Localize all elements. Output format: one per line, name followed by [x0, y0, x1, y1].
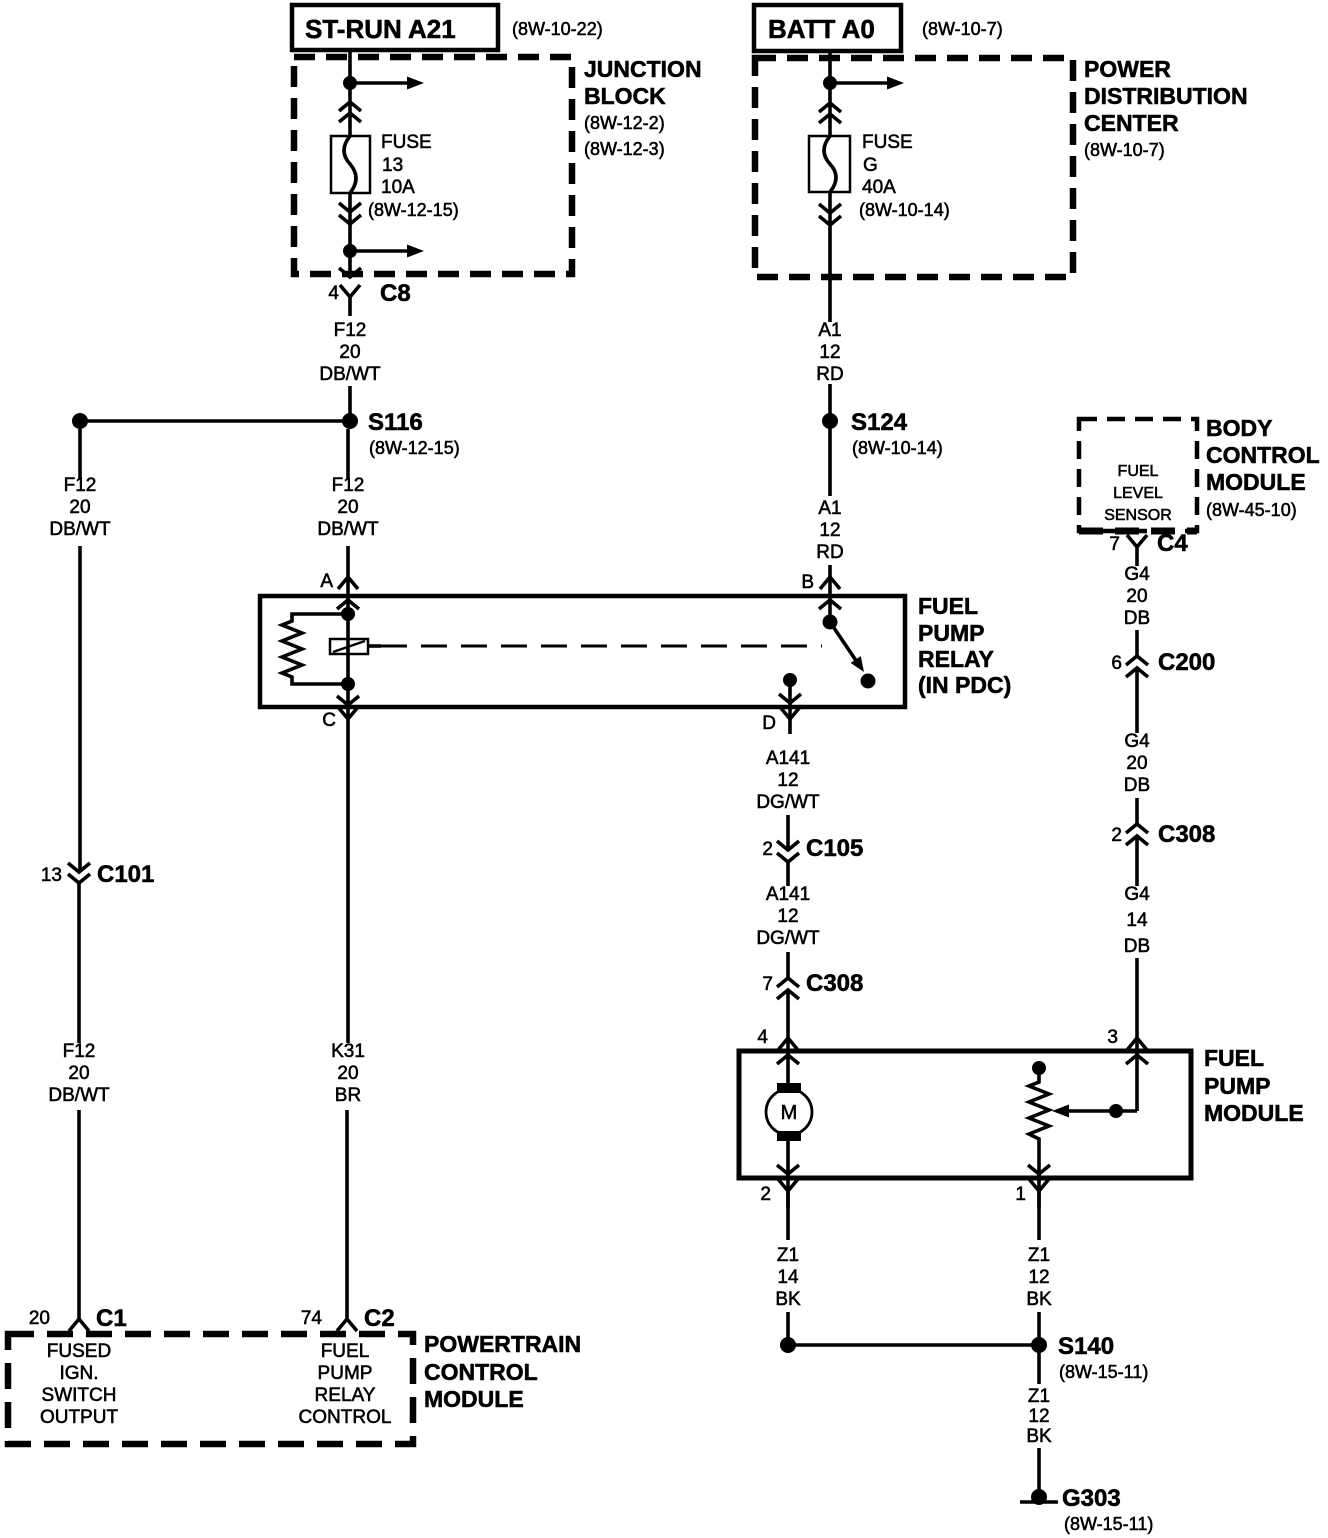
svg-text:Z1: Z1: [1028, 1386, 1050, 1407]
node ST-RUN A21 feed box: [292, 5, 498, 50]
wire down to PCM connector C2: [345, 1110, 349, 1319]
current direction chevrons up: [819, 103, 841, 112]
connector C101 chevrons: [68, 863, 90, 872]
svg-text:BODY: BODY: [1206, 415, 1272, 441]
svg-text:BR: BR: [335, 1085, 361, 1106]
wire to connector C200: [1135, 630, 1139, 656]
relay pin D node: [783, 673, 797, 687]
wire motor to pin 2: [786, 1140, 790, 1208]
svg-text:F12: F12: [334, 320, 367, 341]
powertrain control module dashed enclosure: [8, 1334, 413, 1444]
power distribution center dashed enclosure: [755, 58, 1073, 277]
fuse G 40A power distribution center: [809, 136, 850, 192]
svg-text:1: 1: [1015, 1184, 1026, 1205]
wire below C101: [77, 883, 81, 1043]
svg-text:20: 20: [1126, 586, 1147, 607]
svg-text:14: 14: [777, 1267, 799, 1288]
svg-text:K31: K31: [331, 1041, 365, 1062]
svg-text:7: 7: [1109, 534, 1120, 555]
svg-text:RD: RD: [816, 542, 843, 563]
svg-text:G4: G4: [1124, 731, 1150, 752]
fuel level sender resistor: [1032, 1061, 1046, 1075]
svg-text:C101: C101: [97, 861, 154, 888]
svg-text:2: 2: [1111, 825, 1122, 846]
wire relay pin D: [788, 680, 792, 734]
svg-text:20: 20: [339, 342, 360, 363]
svg-text:C8: C8: [380, 280, 411, 307]
fuel pump motor M1: [777, 1083, 801, 1093]
relay pin D chevron: [779, 694, 801, 703]
svg-text:C2: C2: [364, 1305, 395, 1332]
wire from S116 down: [346, 429, 350, 479]
svg-text:C308: C308: [1158, 821, 1215, 848]
svg-text:OUTPUT: OUTPUT: [40, 1407, 119, 1428]
svg-text:2: 2: [760, 1184, 771, 1205]
svg-text:4: 4: [757, 1027, 768, 1048]
body control module dashed enclosure: [1079, 419, 1197, 531]
svg-text:POWER: POWER: [1084, 56, 1171, 82]
relay coil bottom node: [341, 677, 355, 691]
svg-text:F12: F12: [64, 475, 97, 496]
svg-text:(8W-10-14): (8W-10-14): [852, 438, 943, 458]
sender wiper arm: [1066, 1109, 1137, 1113]
connector C1 fork: [69, 1319, 89, 1331]
wire ST-RUN A21 into junction block: [348, 50, 352, 136]
svg-text:40A: 40A: [862, 177, 896, 198]
wire pin 1 to splice S140: [1037, 1191, 1041, 1240]
svg-text:RELAY: RELAY: [918, 646, 994, 672]
svg-text:13: 13: [41, 865, 62, 886]
wire to splice S124: [828, 384, 832, 496]
wire to connector C105: [786, 815, 790, 850]
svg-text:JUNCTION: JUNCTION: [584, 56, 702, 82]
wire to fuel pump module pin 4: [786, 990, 790, 1084]
svg-text:2: 2: [762, 839, 773, 860]
svg-text:20: 20: [69, 497, 90, 518]
relay pin B fork: [820, 577, 840, 589]
splice S140 left node: [780, 1337, 796, 1353]
svg-text:RD: RD: [816, 364, 843, 385]
svg-text:(8W-10-14): (8W-10-14): [859, 200, 950, 220]
svg-text:BK: BK: [775, 1289, 801, 1310]
wire fuse output: [348, 193, 352, 278]
svg-text:MODULE: MODULE: [424, 1386, 524, 1412]
connector C8 fork: [340, 285, 360, 297]
wire to connector C308: [786, 952, 790, 978]
svg-text:A: A: [320, 571, 333, 592]
svg-text:(8W-10-7): (8W-10-7): [1084, 140, 1165, 160]
fuel pump module pin 4 chevron: [777, 1055, 799, 1064]
wire to fuel pump relay pin B: [828, 565, 832, 622]
relay pin C chevron: [337, 696, 359, 705]
splice S116 bar: [80, 419, 350, 423]
svg-text:MODULE: MODULE: [1206, 469, 1306, 495]
svg-text:3: 3: [1107, 1027, 1118, 1048]
junction node with branch arrow: [823, 76, 837, 90]
connector C2 fork: [337, 1319, 357, 1331]
current direction chevrons up: [339, 102, 361, 111]
svg-text:C200: C200: [1158, 649, 1215, 676]
relay pin D fork: [780, 707, 800, 719]
svg-text:FUSE: FUSE: [381, 132, 432, 153]
svg-text:A1: A1: [818, 498, 841, 519]
fuel pump module pin 2 fork: [778, 1179, 798, 1191]
wire to fuel pump relay pin A: [346, 546, 350, 616]
svg-text:RELAY: RELAY: [315, 1385, 376, 1406]
svg-text:6: 6: [1111, 653, 1122, 674]
svg-text:4: 4: [328, 283, 339, 304]
svg-text:CONTROL: CONTROL: [424, 1359, 538, 1385]
junction node with branch arrow: [343, 244, 357, 258]
splice S116 left node: [72, 413, 88, 429]
svg-text:FUSE: FUSE: [862, 132, 913, 153]
svg-text:PUMP: PUMP: [1204, 1073, 1270, 1099]
wire fuse G output: [828, 192, 832, 322]
svg-text:G303: G303: [1062, 1485, 1121, 1512]
relay pin C fork: [338, 707, 358, 719]
svg-text:FUEL: FUEL: [321, 1341, 370, 1362]
svg-text:20: 20: [1126, 753, 1147, 774]
connector C105 chevrons: [777, 841, 799, 850]
relay coil top node: [341, 607, 355, 621]
ground G303: [1031, 1489, 1047, 1505]
svg-text:ST-RUN A21: ST-RUN A21: [305, 14, 456, 44]
svg-text:S124: S124: [851, 409, 908, 436]
current direction chevrons down: [819, 204, 841, 213]
fuel pump module pin 1 chevron: [1028, 1165, 1050, 1174]
wire BATT A0 into PDC: [828, 51, 832, 136]
svg-text:G: G: [863, 155, 878, 176]
svg-text:C4: C4: [1157, 530, 1188, 557]
relay switch contact node: [861, 674, 876, 689]
svg-text:CONTROL: CONTROL: [299, 1407, 392, 1428]
svg-text:(8W-15-11): (8W-15-11): [1059, 1362, 1148, 1382]
current direction chevrons down: [339, 203, 361, 212]
svg-text:10A: 10A: [381, 177, 415, 198]
svg-text:B: B: [801, 572, 814, 593]
svg-text:BATT A0: BATT A0: [768, 14, 875, 44]
fuel pump module pin 4 fork: [778, 1038, 798, 1050]
svg-text:CONTROL: CONTROL: [1206, 442, 1320, 468]
svg-text:DB/WT: DB/WT: [49, 519, 111, 540]
svg-text:DG/WT: DG/WT: [756, 792, 820, 813]
svg-text:DB: DB: [1124, 936, 1150, 957]
svg-text:M: M: [781, 1102, 798, 1124]
svg-text:POWERTRAIN: POWERTRAIN: [424, 1331, 581, 1357]
svg-text:DG/WT: DG/WT: [756, 928, 820, 949]
splice S124 node: [822, 413, 838, 429]
fuel pump relay box: [260, 596, 905, 707]
svg-text:BK: BK: [1026, 1426, 1052, 1447]
svg-text:FUEL: FUEL: [1118, 463, 1159, 480]
wire below C105: [786, 862, 790, 886]
svg-text:12: 12: [777, 906, 798, 927]
fuel pump module pin 1 fork: [1029, 1179, 1049, 1191]
wire pin 2 to splice S140: [786, 1191, 790, 1240]
svg-text:(8W-12-15): (8W-12-15): [369, 438, 460, 458]
svg-text:BK: BK: [1026, 1289, 1052, 1310]
svg-text:(8W-12-2): (8W-12-2): [584, 113, 665, 133]
svg-text:S116: S116: [368, 409, 423, 436]
wire to connector C308: [1135, 798, 1139, 824]
svg-text:12: 12: [819, 520, 840, 541]
svg-text:SWITCH: SWITCH: [42, 1385, 117, 1406]
relay switch blade: [830, 622, 857, 662]
svg-text:20: 20: [29, 1308, 50, 1329]
svg-text:(8W-45-10): (8W-45-10): [1206, 500, 1297, 520]
wire below C308: [1135, 836, 1139, 886]
svg-text:(8W-15-11): (8W-15-11): [1064, 1514, 1153, 1534]
svg-text:12: 12: [1028, 1406, 1049, 1427]
wire from S116 left branch down: [78, 429, 82, 479]
svg-text:74: 74: [301, 1308, 323, 1329]
svg-text:20: 20: [68, 1063, 89, 1084]
relay suppression resistor: [282, 614, 348, 684]
svg-text:C: C: [322, 710, 336, 731]
svg-text:(8W-10-22): (8W-10-22): [512, 19, 603, 39]
connector C308 chevrons: [777, 978, 799, 987]
splice S140 bar: [788, 1343, 1039, 1347]
svg-text:C1: C1: [96, 1305, 127, 1332]
connector C4 fork: [1127, 535, 1147, 547]
svg-text:DB/WT: DB/WT: [319, 364, 381, 385]
svg-text:SENSOR: SENSOR: [1104, 507, 1172, 524]
svg-text:IGN.: IGN.: [59, 1363, 98, 1384]
svg-text:S140: S140: [1058, 1333, 1114, 1360]
svg-text:12: 12: [819, 342, 840, 363]
relay pin B chevron: [819, 600, 841, 609]
connector C200 chevrons: [1126, 656, 1148, 665]
junction node with branch arrow: [343, 76, 357, 90]
svg-text:G4: G4: [1124, 564, 1150, 585]
svg-text:Z1: Z1: [777, 1245, 799, 1266]
svg-text:20: 20: [337, 497, 358, 518]
fuel pump module pin 3 chevron: [1126, 1055, 1148, 1064]
connector C308 chevrons: [1126, 824, 1148, 833]
svg-text:12: 12: [777, 770, 798, 791]
wire sender to pin 1: [1037, 1143, 1041, 1208]
svg-text:(8W-10-7): (8W-10-7): [922, 19, 1003, 39]
svg-text:DB: DB: [1124, 775, 1150, 796]
svg-text:FUEL: FUEL: [918, 593, 978, 619]
junction block dashed enclosure: [294, 57, 572, 274]
svg-text:A141: A141: [766, 884, 810, 905]
relay pin A fork: [338, 577, 358, 589]
svg-text:DB/WT: DB/WT: [48, 1085, 110, 1106]
wire to ground G303: [1037, 1448, 1041, 1492]
wire down to PCM connector C1: [77, 1110, 81, 1319]
svg-text:D: D: [762, 713, 776, 734]
wire to splice S116: [348, 386, 352, 416]
svg-text:FUEL: FUEL: [1204, 1045, 1264, 1071]
svg-text:DB/WT: DB/WT: [317, 519, 379, 540]
wire below S140: [1037, 1353, 1041, 1384]
svg-text:(IN PDC): (IN PDC): [918, 672, 1011, 698]
connector C8 pin 4 chevron: [339, 268, 361, 277]
fuel pump module pin 3 fork: [1127, 1038, 1147, 1050]
svg-text:PUMP: PUMP: [918, 620, 984, 646]
relay control dashed link: [381, 645, 822, 648]
wire K31 to PCM: [346, 734, 350, 1043]
wire through relay pin C: [346, 684, 350, 734]
svg-text:A141: A141: [766, 748, 810, 769]
svg-text:F12: F12: [332, 475, 365, 496]
svg-text:14: 14: [1126, 910, 1148, 931]
svg-text:BLOCK: BLOCK: [584, 83, 666, 109]
fuel pump module box: [739, 1051, 1191, 1178]
wire relay coil vertical: [346, 614, 350, 684]
svg-text:7: 7: [762, 974, 773, 995]
svg-text:A1: A1: [818, 320, 841, 341]
splice S140 right node: [1031, 1337, 1047, 1353]
relay coil: [330, 639, 368, 654]
wire down to connector C101: [78, 546, 82, 872]
svg-text:F12: F12: [63, 1041, 96, 1062]
svg-text:MODULE: MODULE: [1204, 1100, 1304, 1126]
svg-text:LEVEL: LEVEL: [1113, 485, 1163, 502]
relay pin A chevron: [337, 600, 359, 609]
svg-text:G4: G4: [1124, 884, 1150, 905]
svg-text:12: 12: [1028, 1267, 1049, 1288]
wire below C200: [1135, 668, 1139, 733]
svg-text:CENTER: CENTER: [1084, 110, 1179, 136]
svg-text:20: 20: [337, 1063, 358, 1084]
svg-text:PUMP: PUMP: [318, 1363, 373, 1384]
fuel pump module pin 2 chevron: [777, 1165, 799, 1174]
svg-text:C308: C308: [806, 970, 863, 997]
fuse 13 10A junction block: [331, 136, 370, 193]
splice S116 right node: [342, 413, 358, 429]
relay switch common node: [823, 615, 838, 630]
sender wiper node: [1109, 1104, 1123, 1118]
svg-text:DB: DB: [1124, 608, 1150, 629]
svg-text:DISTRIBUTION: DISTRIBUTION: [1084, 83, 1248, 109]
svg-text:FUSED: FUSED: [47, 1341, 111, 1362]
svg-text:C105: C105: [806, 835, 863, 862]
svg-text:13: 13: [382, 155, 403, 176]
svg-text:(8W-12-3): (8W-12-3): [584, 139, 665, 159]
svg-text:Z1: Z1: [1028, 1245, 1050, 1266]
wire to fuel pump module pin 3: [1135, 958, 1139, 1111]
svg-text:(8W-12-15): (8W-12-15): [368, 200, 459, 220]
node BATT A0 feed box: [754, 5, 901, 51]
